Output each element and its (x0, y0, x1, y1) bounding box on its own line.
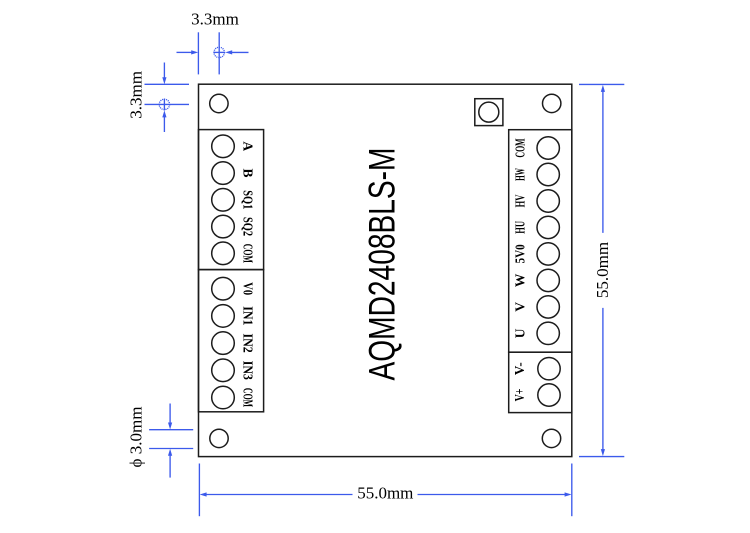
pin U (513, 322, 560, 344)
svg-text:V: V (513, 302, 528, 312)
arrow above hole (169, 404, 171, 424)
svg-text:3.3mm: 3.3mm (126, 71, 145, 119)
svg-text:A: A (240, 141, 255, 151)
arrow below hole (169, 455, 171, 478)
svg-text:COM: COM (513, 138, 528, 157)
pin COM (J3) (513, 137, 560, 159)
mounting hole bottom-right (542, 429, 560, 447)
hole center marker left (159, 99, 169, 111)
extension line board left edge (197, 32, 199, 74)
mounting hole top-left (210, 94, 228, 112)
svg-text:ϕ 3.0mm: ϕ 3.0mm (127, 407, 146, 468)
tangent line bottom (149, 448, 193, 450)
pin IN1 (212, 305, 256, 328)
right dimension 55.0mm (579, 84, 624, 456)
svg-text:IN2: IN2 (240, 334, 255, 353)
pin V+ (512, 384, 560, 406)
mounting hole top-right (543, 94, 561, 112)
dim line left segment with left arrow (206, 494, 353, 496)
arrow below 3.3mm (162, 110, 166, 132)
pin W (513, 269, 560, 291)
svg-text:U: U (513, 328, 528, 338)
arrow left of 3.3mm (177, 50, 199, 54)
svg-text:55.0mm: 55.0mm (357, 483, 413, 502)
svg-text:V0: V0 (240, 282, 255, 295)
pin COM (J1) (212, 242, 256, 265)
svg-text:IN3: IN3 (240, 361, 255, 380)
pin SQ2 (212, 215, 256, 238)
left terminal block J1 (199, 130, 264, 270)
right terminal block J4 (509, 352, 572, 412)
extension line hole center horizontal (145, 103, 190, 105)
pin SQ1 (212, 189, 256, 212)
tick bottom left (198, 464, 200, 517)
pin B (212, 162, 256, 185)
pin V- (512, 358, 560, 380)
svg-text:HW: HW (513, 168, 528, 181)
svg-text:V+: V+ (512, 389, 527, 402)
tick bottom right (579, 456, 624, 458)
push button cap (479, 102, 499, 122)
pin HV (513, 190, 560, 212)
svg-text:5V0: 5V0 (513, 244, 528, 263)
dim line right segment with right arrow (418, 494, 566, 496)
svg-text:HU: HU (513, 221, 528, 234)
mounting hole bottom-left (210, 429, 228, 447)
svg-text:AQMD2408BLS-M: AQMD2408BLS-M (362, 148, 403, 381)
bottom dimension 55.0mm (199, 464, 571, 517)
arrow above 3.3mm (162, 63, 166, 85)
pin A (212, 135, 256, 158)
svg-text:B: B (240, 169, 255, 178)
pin V (513, 296, 560, 318)
left terminal block J2 (199, 270, 264, 412)
pin V0 (212, 277, 256, 300)
extension line hole center vertical (218, 32, 220, 74)
svg-text:COM: COM (240, 244, 255, 263)
svg-text:COM: COM (240, 388, 255, 407)
pin HU (513, 216, 560, 238)
dim line lower segment with down arrow (602, 308, 604, 450)
svg-text:55.0mm: 55.0mm (593, 242, 612, 298)
pin IN2 (212, 332, 256, 355)
arrow right of 3.3mm (225, 50, 248, 54)
hole center marker top (213, 47, 225, 57)
svg-text:3.3mm: 3.3mm (191, 9, 239, 28)
svg-text:IN1: IN1 (240, 306, 255, 325)
pin 5V0 (513, 243, 560, 265)
tangent line top (149, 429, 193, 431)
svg-text:W: W (513, 273, 528, 287)
svg-text:SQ2: SQ2 (240, 217, 255, 236)
right terminal block J3 (509, 130, 572, 353)
dim line upper segment with up arrow (602, 91, 604, 233)
svg-text:HV: HV (513, 194, 528, 207)
hole diameter dimension (127, 404, 194, 478)
pin HW (513, 163, 560, 185)
board outline (199, 84, 572, 456)
svg-text:SQ1: SQ1 (240, 190, 255, 209)
pin COM (J2) (212, 386, 256, 409)
pin IN3 (212, 359, 256, 382)
tick bottom right vertical (571, 464, 573, 517)
svg-text:V-: V- (512, 362, 527, 375)
push button outline (475, 99, 503, 126)
extension line board top edge (145, 83, 190, 85)
tick top right (579, 83, 624, 85)
